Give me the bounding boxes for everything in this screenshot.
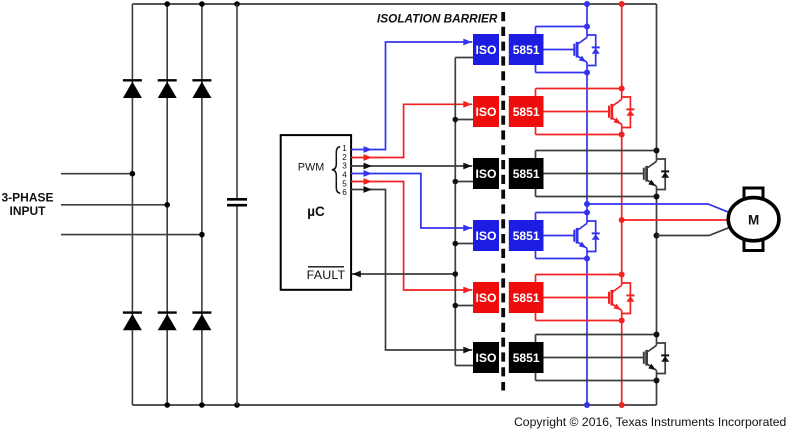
wire FAULT stub row 4	[455, 243, 474, 245]
wire phase leg U (blue) vertical	[586, 4, 588, 37]
wire phase U to motor	[587, 204, 729, 212]
wire driver 5 gate drive	[544, 297, 610, 299]
node emitter junction Q6	[654, 378, 660, 384]
diode DQ5 freewheeling	[626, 294, 634, 296]
diode D2 (top rectifier)	[158, 79, 177, 81]
diode DQ1 freewheeling	[592, 46, 600, 48]
node FAULT junction row 2	[453, 117, 459, 123]
transistor Q3 IGBT	[644, 159, 665, 190]
svg-text:2: 2	[342, 153, 347, 162]
isolator ISO6	[473, 342, 499, 373]
isolator ISO1	[473, 34, 499, 65]
node phase U tap	[584, 201, 590, 207]
gate driver U4 5851	[509, 220, 544, 251]
svg-text:3: 3	[342, 162, 347, 171]
diode DQ3 freewheeling	[661, 170, 669, 172]
node collector junction Q4	[584, 210, 590, 216]
gate driver U5 5851	[509, 282, 544, 313]
transistor Q2 IGBT	[609, 97, 630, 128]
wire driver 4 gate drive	[544, 235, 575, 237]
node emitter junction Q3	[654, 194, 660, 200]
wire PWM4 from uC pin 4 to ISO4	[351, 174, 472, 229]
wire driver 5 emitter loop	[536, 320, 622, 322]
svg-text:5851: 5851	[513, 105, 540, 119]
diode D4 (bottom rectifier)	[123, 311, 142, 313]
node bottom rail junctions	[164, 402, 170, 408]
wire 3-phase input line 2	[61, 204, 167, 206]
motor M	[728, 198, 779, 241]
isolator ISO4	[473, 220, 499, 251]
microcontroller U1 uC	[281, 135, 351, 290]
node phase V tap	[619, 217, 625, 223]
wire driver 1 collector sense loop	[536, 26, 588, 28]
svg-text:1: 1	[342, 144, 347, 153]
gate driver U2 5851	[509, 96, 544, 127]
node DC- taps	[584, 402, 590, 408]
node FAULT junction row 4	[453, 241, 459, 247]
diode DQ4 freewheeling	[592, 232, 600, 234]
svg-text:FAULT: FAULT	[307, 268, 346, 282]
svg-text:ISO: ISO	[476, 167, 497, 181]
wire FAULT feedback to uC	[352, 273, 456, 275]
transistor Q6 IGBT	[644, 343, 665, 374]
node FAULT junction row 5	[453, 303, 459, 309]
wire driver 5 collector sense loop	[536, 274, 622, 276]
diode DQ2 freewheeling	[626, 108, 634, 110]
motor M terminal top	[744, 188, 763, 202]
node collector junction Q1	[584, 24, 590, 30]
diode D5 (bottom rectifier)	[158, 311, 177, 313]
wire driver 6 collector sense loop	[536, 334, 657, 336]
svg-text:ISO: ISO	[476, 351, 497, 365]
node phase W tap	[654, 233, 660, 239]
wire 3-phase input line 3	[61, 234, 202, 236]
node top rail junctions	[164, 1, 170, 7]
transistor Q1 IGBT	[574, 35, 595, 66]
svg-text:µC: µC	[307, 204, 325, 219]
wire driver 1 emitter loop	[536, 72, 588, 74]
capacitor C1 DC link	[236, 4, 238, 199]
wire rectifier leg B vertical	[166, 4, 168, 405]
svg-text:ISO: ISO	[476, 291, 497, 305]
svg-text:INPUT: INPUT	[10, 204, 47, 218]
motor M terminal bottom	[744, 236, 763, 251]
wire phase V to motor	[622, 219, 728, 221]
wire PWM5 from uC pin 5 to ISO5	[351, 182, 472, 291]
node FAULT junction at uC line	[453, 271, 459, 277]
wire driver 3 gate drive	[544, 173, 644, 175]
wire FAULT stub row 3	[455, 181, 474, 183]
wire FAULT stub row 2	[455, 119, 474, 121]
svg-text:PWM: PWM	[298, 161, 324, 173]
wire driver 4 emitter loop	[536, 258, 588, 260]
node emitter junction Q4	[584, 256, 590, 262]
wire driver 4 collector sense loop	[536, 212, 588, 214]
svg-text:5851: 5851	[513, 351, 540, 365]
wire PWM2 from uC pin 2 to ISO2	[351, 104, 472, 157]
node collector junction Q5	[619, 272, 625, 278]
svg-text:5851: 5851	[513, 167, 540, 181]
wire driver 2 emitter loop	[536, 134, 622, 136]
wire PWM1 from uC pin 1 to ISO1	[351, 42, 472, 150]
wire driver 3 emitter loop	[536, 196, 657, 198]
diode DQ6 freewheeling	[661, 354, 669, 356]
isolator ISO5	[473, 282, 499, 313]
node input junction 1	[130, 171, 136, 177]
node emitter junction Q1	[584, 70, 590, 76]
svg-text:4: 4	[342, 170, 347, 179]
node collector junction Q2	[619, 86, 625, 92]
svg-text:Copyright © 2016, Texas Instru: Copyright © 2016, Texas Instruments Inco…	[514, 415, 786, 429]
wire PWM6 from uC pin 6 to ISO6	[351, 190, 472, 351]
wire driver 6 gate drive	[544, 357, 644, 359]
isolation barrier dashed line	[501, 12, 505, 391]
node emitter junction Q5	[619, 318, 625, 324]
node input junction 2	[164, 202, 170, 208]
diode D6 (bottom rectifier)	[192, 311, 211, 313]
isolator ISO3	[473, 158, 499, 189]
wire DC- bottom rail	[132, 404, 656, 406]
gate driver U1 5851	[509, 34, 544, 65]
label pin numbers 1-6	[342, 144, 347, 197]
svg-text:ISO: ISO	[476, 229, 497, 243]
wire driver 3 collector sense loop	[536, 150, 657, 152]
svg-text:6: 6	[342, 188, 347, 197]
wire rectifier leg A vertical	[131, 4, 133, 405]
svg-text:3-PHASE: 3-PHASE	[1, 190, 53, 204]
node FAULT junction row 3	[453, 179, 459, 185]
isolator ISO2	[473, 96, 499, 127]
wire driver 6 emitter loop	[536, 380, 657, 382]
wire driver 2 collector sense loop	[536, 88, 622, 90]
node input junction 3	[199, 232, 205, 238]
label 3-PHASE INPUT	[1, 190, 53, 218]
node FAULT arrow into uC	[352, 271, 361, 278]
wire phase W to motor	[657, 228, 729, 236]
svg-text:ISO: ISO	[476, 105, 497, 119]
wire PWM3 from uC pin 3 to ISO3	[351, 165, 472, 167]
gate driver U3 5851	[509, 158, 544, 189]
svg-text:5851: 5851	[513, 229, 540, 243]
svg-text:ISOLATION BARRIER: ISOLATION BARRIER	[377, 12, 498, 26]
diode D3 (top rectifier)	[192, 79, 211, 81]
svg-text:M: M	[748, 212, 759, 227]
node collector junction Q3	[654, 148, 660, 154]
diode D1 (top rectifier)	[123, 79, 142, 81]
svg-text:5851: 5851	[513, 43, 540, 57]
wire DC+ top rail	[132, 3, 656, 5]
wire 3-phase input line 1	[61, 173, 132, 175]
wire FAULT stub row 1	[455, 57, 474, 59]
brace PWM pins	[332, 147, 340, 194]
wire rectifier leg C vertical	[201, 4, 203, 405]
node collector junction Q6	[654, 332, 660, 338]
transistor Q5 IGBT	[609, 283, 630, 314]
node DC+ taps	[584, 1, 590, 7]
wire driver 2 gate drive	[544, 111, 610, 113]
wire phase leg V (red) vertical	[621, 4, 623, 99]
svg-text:5851: 5851	[513, 291, 540, 305]
node emitter junction Q2	[619, 132, 625, 138]
wire FAULT stub row 6	[455, 365, 474, 367]
wire FAULT stub row 5	[455, 305, 474, 307]
gate driver U6 5851	[509, 342, 544, 373]
wire FAULT bus vertical	[454, 58, 456, 366]
wire phase leg W (black) vertical	[656, 4, 658, 161]
svg-text:ISO: ISO	[476, 43, 497, 57]
transistor Q4 IGBT	[574, 221, 595, 252]
wire driver 1 gate drive	[544, 49, 575, 51]
